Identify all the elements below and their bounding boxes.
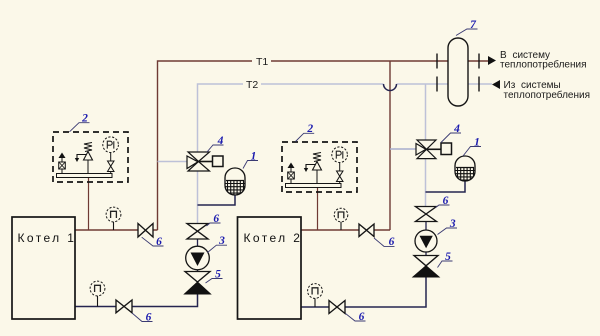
pump 3 left	[186, 246, 210, 270]
svg-text:6: 6	[146, 311, 152, 323]
label 1 right (expansion tank)	[463, 136, 481, 156]
wire safety group 1 manifold drop (maroon)	[88, 178, 90, 231]
label 2 left (safety group 1)	[70, 113, 90, 132]
wire boiler2 return pipe (navy)	[300, 277, 426, 307]
wire safety group 2 manifold drop (maroon)	[317, 188, 319, 231]
valve 6 boiler1 return	[116, 300, 132, 313]
label 6 left chain valve	[207, 213, 221, 226]
wire T2 drop left chain (lavender)	[197, 171, 199, 224]
label 6 boiler2 return valve	[346, 311, 366, 323]
label 6 boiler1 return valve	[132, 311, 153, 323]
wire boiler1 supply pipe (maroon)	[75, 229, 158, 231]
three-way valve 4 left with actuator	[187, 152, 223, 171]
svg-text:2: 2	[81, 113, 88, 125]
hydraulic separator 7	[437, 38, 479, 106]
svg-text:5: 5	[445, 251, 451, 263]
arrow to system	[488, 56, 496, 65]
label 5 right (check valve)	[438, 251, 453, 268]
wire tank 1 right connection (navy)	[426, 181, 466, 192]
svg-text:3: 3	[449, 218, 456, 230]
svg-text:теплопотребления: теплопотребления	[504, 89, 591, 101]
pump 3 right	[415, 230, 437, 252]
label 4 right (3-way valve)	[441, 123, 461, 143]
wire T2 drop right chain (lavender)	[425, 84, 427, 206]
svg-text:5: 5	[215, 268, 221, 280]
svg-text:Т1: Т1	[256, 56, 268, 68]
svg-text:Т2: Т2	[246, 79, 258, 91]
valve 6 boiler1 supply	[138, 224, 153, 238]
svg-text:1: 1	[474, 136, 480, 148]
gauge valve	[337, 171, 344, 182]
svg-text:6: 6	[213, 213, 219, 225]
label 6 boiler2 supply valve	[374, 236, 395, 248]
boiler Котел 2	[238, 217, 303, 319]
flange ticks	[437, 54, 479, 92]
svg-text:1: 1	[251, 150, 257, 162]
arrow from system	[492, 80, 500, 89]
valve 6 boiler2 return	[329, 301, 345, 314]
svg-text:теплопотребления: теплопотребления	[500, 59, 587, 71]
label 2 right (safety group 2)	[296, 123, 315, 141]
wire separator outlet to system (maroon)	[468, 60, 488, 62]
wire boiler1 return pipe (navy)	[73, 294, 198, 307]
label 1 left (expansion tank)	[243, 150, 258, 168]
svg-text:3: 3	[218, 235, 225, 247]
pressure gauge PI	[332, 147, 348, 163]
wire T2 return header (lavender)	[198, 84, 449, 152]
manifold bar	[57, 174, 113, 178]
svg-text:4: 4	[217, 135, 224, 147]
svg-text:Котел 1: Котел 1	[18, 231, 77, 245]
valve 6 left chain (vertical)	[187, 224, 208, 240]
svg-text:4: 4	[453, 123, 460, 135]
expansion tank 1 right	[455, 156, 475, 182]
wire boiler2 supply pipe (maroon)	[301, 229, 390, 231]
wire left chain stubs (navy)	[197, 239, 199, 272]
label 7 (hydraulic separator)	[456, 19, 478, 36]
thermometer on boiler2 supply	[334, 208, 348, 230]
three-way valve 4 right with actuator	[416, 140, 452, 159]
thermometer on boiler2 return	[308, 284, 323, 307]
label 3 right (pump)	[438, 218, 458, 235]
wire tank 1 left connection (navy)	[198, 195, 236, 206]
wire stub to 3-way valve 1 (lavender)	[158, 161, 187, 163]
boiler Котел 1	[12, 217, 76, 319]
air vent	[288, 163, 295, 169]
svg-text:6: 6	[359, 311, 365, 323]
expansion tank 1 left	[225, 168, 245, 196]
wire separator inlet from system (lavender)	[468, 83, 492, 85]
label 6 boiler1 supply valve	[142, 236, 164, 248]
manifold bar	[286, 184, 342, 188]
pressure gauge PI	[103, 137, 119, 153]
svg-text:2: 2	[306, 123, 313, 135]
label 5 left (check valve)	[206, 268, 223, 283]
wire right chain stubs (navy)	[425, 222, 427, 256]
valve 6 boiler2 supply	[359, 224, 374, 237]
thermometer on boiler1 supply	[106, 207, 121, 230]
gauge valve	[108, 161, 115, 172]
svg-text:6: 6	[389, 236, 395, 248]
svg-text:6: 6	[156, 236, 162, 248]
safety valve	[313, 162, 322, 171]
wire crossing hop on T2	[384, 84, 397, 91]
safety group 2 left (dashed box)	[53, 132, 128, 182]
safety valve	[84, 152, 93, 161]
thermometer on boiler1 return	[90, 281, 105, 306]
svg-text:Котел 2: Котел 2	[244, 231, 303, 245]
label 6 right chain valve	[436, 195, 450, 208]
wire T1 supply header (maroon)	[158, 61, 449, 230]
air vent	[59, 153, 66, 159]
check valve 5 right	[413, 256, 439, 278]
wire stub to 3-way valve 2 (lavender)	[390, 148, 416, 150]
svg-text:6: 6	[443, 195, 449, 207]
label 4 left (3-way valve)	[207, 135, 224, 152]
safety group 2 right (dashed box)	[282, 142, 357, 192]
wire T1 drop to boiler 2 (maroon)	[389, 61, 391, 230]
valve 6 right chain (vertical)	[416, 207, 437, 222]
check valve 5 left	[185, 272, 211, 295]
label 3 left (pump)	[208, 235, 228, 253]
